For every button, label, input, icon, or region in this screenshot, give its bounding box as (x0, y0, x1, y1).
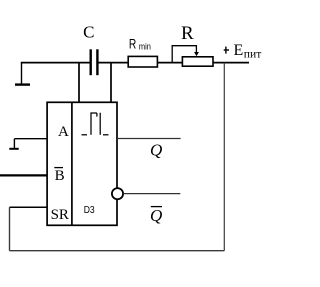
svg-text:пит: пит (244, 48, 261, 60)
svg-text:D3: D3 (84, 204, 95, 216)
svg-text:SR: SR (51, 207, 69, 223)
svg-text:Q: Q (150, 206, 162, 225)
svg-text:B: B (55, 168, 65, 184)
svg-text:min: min (139, 41, 151, 51)
svg-text:Q: Q (150, 141, 162, 160)
svg-text:R: R (129, 37, 137, 52)
svg-text:R: R (181, 23, 194, 44)
svg-text:A: A (58, 124, 69, 140)
svg-text:E: E (234, 42, 244, 59)
svg-text:C: C (83, 22, 94, 41)
